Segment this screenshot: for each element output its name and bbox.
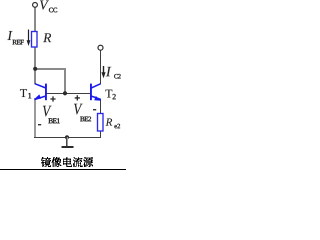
ground: [66, 137, 67, 146]
label plus VBE2: [75, 95, 80, 100]
resistor Re2: [98, 114, 104, 132]
label T2: [105, 90, 115, 100]
label VBE2: [74, 104, 91, 121]
label T1: [20, 89, 31, 98]
transistor T2: [90, 84, 101, 101]
arrow IC2: [103, 66, 105, 74]
label VCC: [40, 1, 57, 13]
label Re2: [106, 118, 120, 128]
power terminal VCC: [33, 3, 38, 8]
arrow IREF: [28, 30, 30, 42]
transistor T1: [35, 84, 47, 101]
caption: 镜像电流源 (pixel rects): [41, 157, 93, 167]
wire: collector-base tie horizontal from node A: [34, 68, 66, 70]
label VBE1: [43, 106, 60, 123]
node A junction dot: [33, 67, 37, 71]
output terminal IC2: [98, 45, 103, 50]
ground junction dot: [65, 135, 69, 139]
separator line: [0, 169, 126, 170]
wire: VCC terminal down to T1 collector (left vertical): [34, 7, 36, 84]
label plus VBE1: [50, 96, 55, 101]
label minus VBE1: [38, 124, 41, 125]
wire: base wire T1 to T2: [46, 93, 91, 94]
label minus VBE2: [93, 109, 96, 110]
label IREF: [7, 31, 23, 44]
wire: tie vertical down to base wire: [64, 68, 66, 93]
wire: T1 emitter down to rail: [34, 98, 36, 137]
label IC2: [106, 67, 121, 79]
resistor R: [32, 32, 38, 48]
wire: bottom rail: [34, 137, 101, 138]
wire: T2 emitter down through Re2 to rail: [100, 99, 101, 137]
node B junction dot on base wire: [63, 91, 67, 95]
wire: output terminal down to T2 collector (right vertical): [100, 50, 101, 84]
label R: [43, 33, 51, 42]
